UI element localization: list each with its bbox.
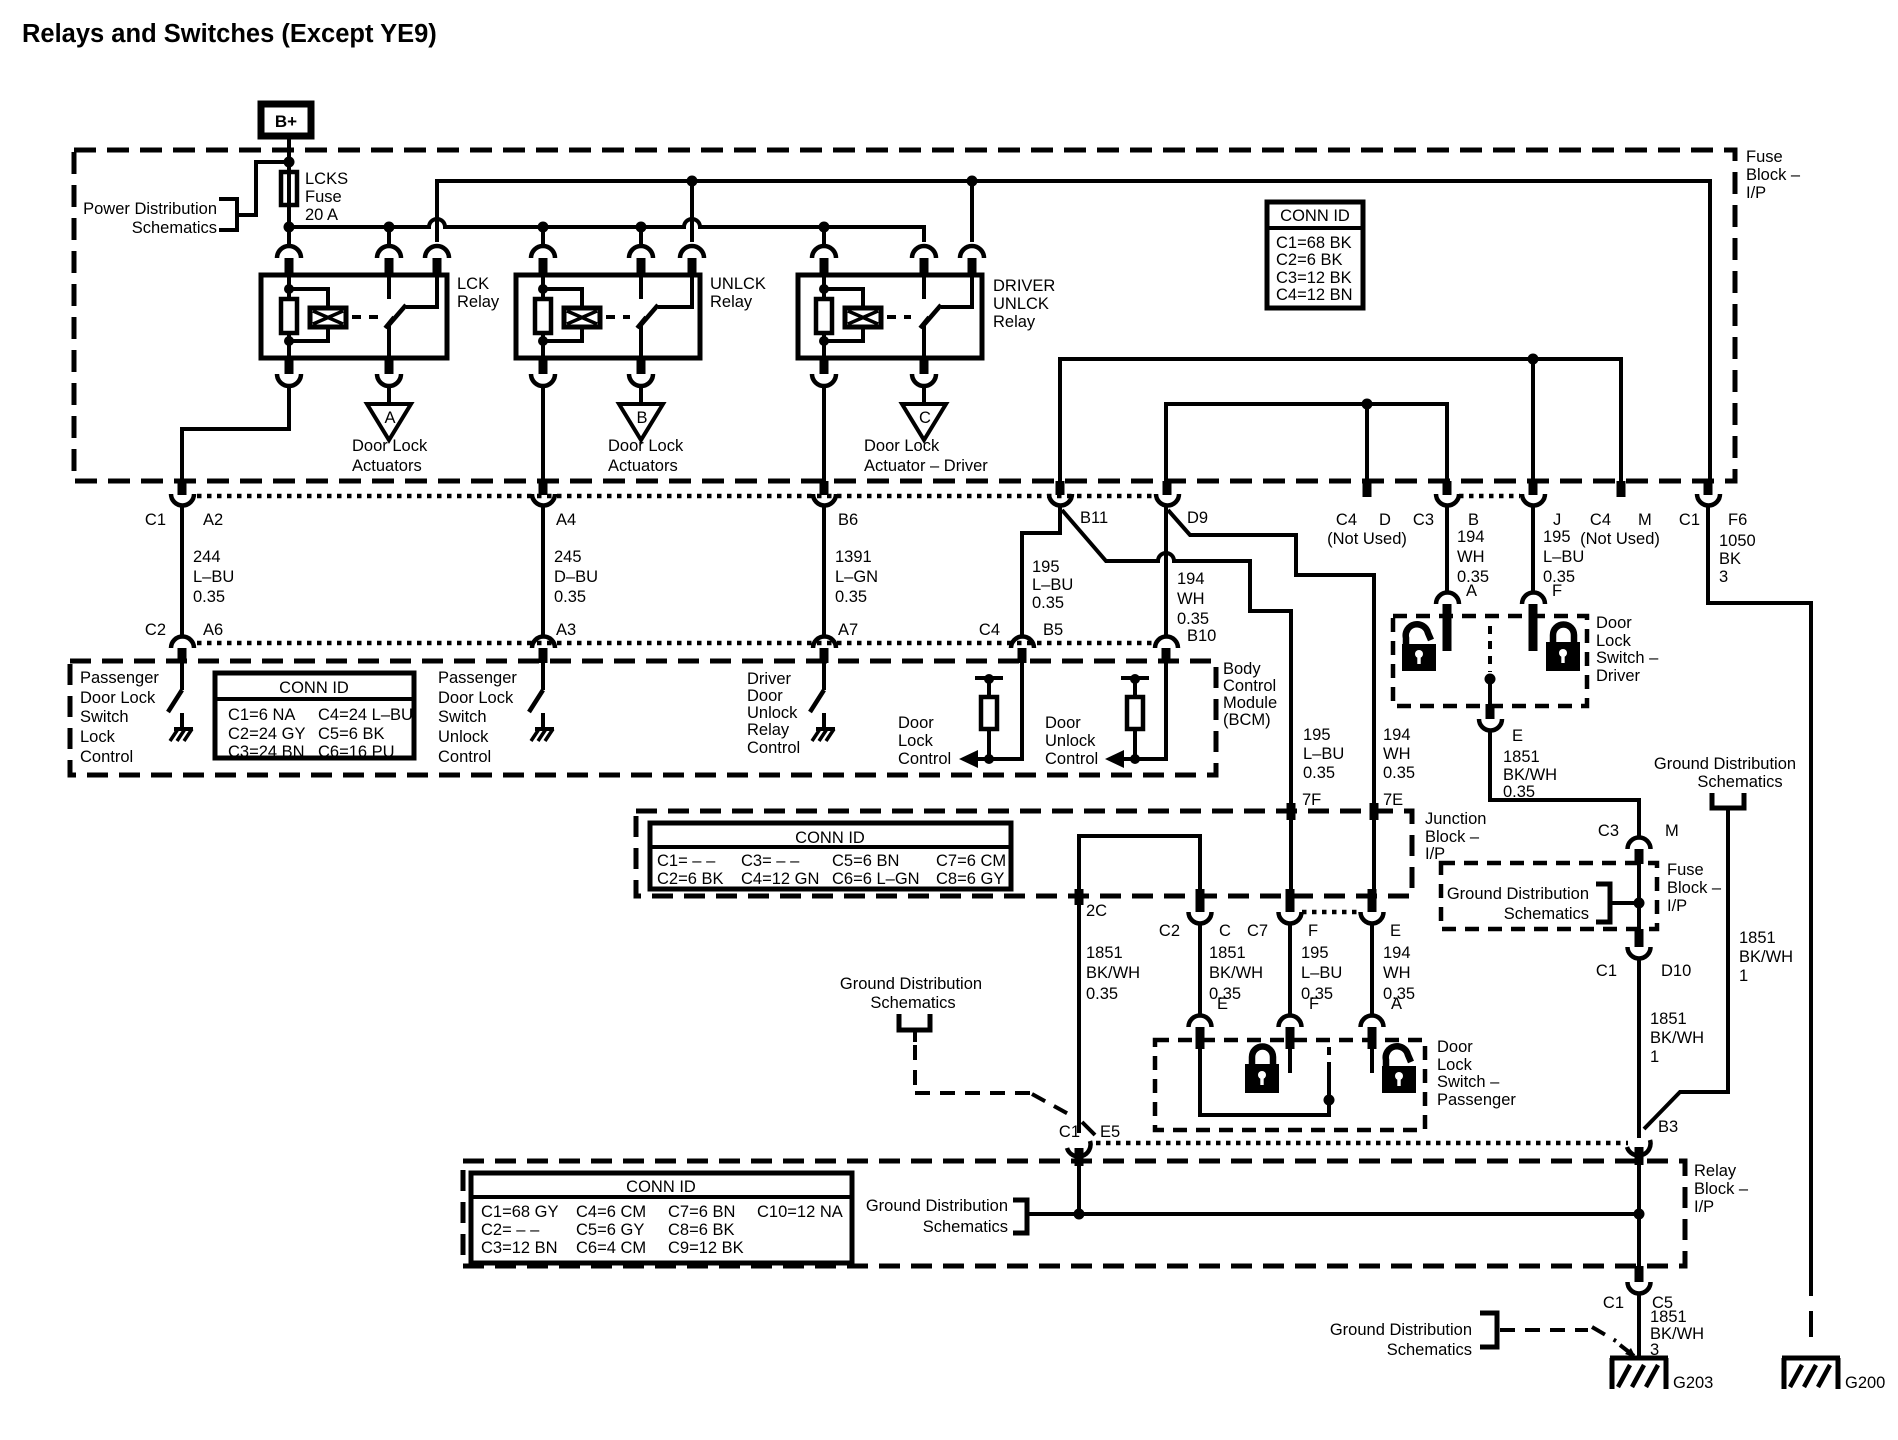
svg-text:Module: Module xyxy=(1223,694,1277,712)
connector C1/F6 xyxy=(1679,481,1747,529)
svg-text:1391: 1391 xyxy=(835,548,872,566)
svg-text:Control: Control xyxy=(898,750,951,768)
resistor BCM lock xyxy=(975,674,1003,759)
pin 2C xyxy=(1075,889,1108,920)
svg-text:244: 244 xyxy=(193,548,221,566)
svg-text:Unlock: Unlock xyxy=(438,728,489,746)
svg-text:D10: D10 xyxy=(1661,962,1691,980)
svg-text:A: A xyxy=(1391,995,1402,1013)
switch SW3 driver unlock relay control xyxy=(810,663,824,712)
svg-text:1851: 1851 xyxy=(1086,944,1123,962)
connector C1/C5 xyxy=(1603,1266,1673,1312)
svg-text:C5=6 GY: C5=6 GY xyxy=(576,1221,644,1239)
svg-text:F: F xyxy=(1552,582,1562,600)
svg-text:1050: 1050 xyxy=(1719,532,1756,550)
svg-text:C7=6 CM: C7=6 CM xyxy=(936,852,1006,870)
svg-text:Schematics: Schematics xyxy=(870,994,955,1012)
relay K3 coil winding branch xyxy=(824,289,881,341)
relay K1 mechanical link xyxy=(352,315,378,319)
svg-text:I/P: I/P xyxy=(1667,897,1687,915)
relay K1 pin 30 top connector xyxy=(377,227,401,275)
wire relay3 coil to B6 xyxy=(822,385,826,481)
connector C4/M not used xyxy=(1580,481,1660,548)
wire through fuse block mini xyxy=(1637,864,1641,929)
svg-text:Ground Distribution: Ground Distribution xyxy=(866,1197,1008,1215)
svg-text:F: F xyxy=(1309,995,1319,1013)
svg-text:L–BU: L–BU xyxy=(1303,745,1344,763)
svg-text:C1= – –: C1= – – xyxy=(657,852,716,870)
svg-text:Unlock: Unlock xyxy=(747,704,798,722)
connector E driver switch output xyxy=(1479,704,1523,745)
wire 244 L-BU xyxy=(182,505,234,637)
ground distribution callout top right xyxy=(1654,755,1796,808)
svg-text:BK/WH: BK/WH xyxy=(1503,766,1557,784)
connector D9 xyxy=(1156,481,1208,527)
svg-text:C4=12 BN: C4=12 BN xyxy=(1276,286,1353,304)
svg-text:I/P: I/P xyxy=(1746,184,1766,202)
connector C3/B xyxy=(1413,481,1479,529)
svg-text:1851: 1851 xyxy=(1650,1308,1687,1326)
driver switch mechanical link xyxy=(1485,626,1496,706)
relay K3 coil branch resistor xyxy=(816,275,832,358)
relay K1 output bottom connector xyxy=(377,358,401,386)
svg-text:L–BU: L–BU xyxy=(1543,548,1584,566)
wire 1851 BK/WH 3 to G203 xyxy=(1639,1293,1704,1359)
dotted segment F-E junction xyxy=(1302,910,1360,915)
pin 7E junction block xyxy=(1370,726,1416,820)
svg-text:A: A xyxy=(1466,582,1477,600)
wire F to passenger switch F xyxy=(1290,923,1342,1015)
svg-text:2C: 2C xyxy=(1086,902,1107,920)
padlock locked passenger xyxy=(1245,1047,1279,1094)
svg-text:C4: C4 xyxy=(979,621,1000,639)
svg-text:A: A xyxy=(384,409,395,427)
svg-text:Relays and Switches (Except YE: Relays and Switches (Except YE9) xyxy=(22,20,437,48)
conn id table relay block xyxy=(471,1173,852,1263)
junction block dashed box xyxy=(636,810,1486,896)
wire relay2 contact drop xyxy=(690,181,694,242)
svg-text:Relay: Relay xyxy=(710,293,753,311)
relay K1 coil branch resistor xyxy=(281,275,297,358)
svg-text:20 A: 20 A xyxy=(305,206,338,224)
svg-text:Passenger: Passenger xyxy=(80,669,159,687)
wire 195 L-BU to driver switch F xyxy=(1533,505,1584,600)
connector face dotted row 2 xyxy=(197,641,1152,646)
svg-text:3: 3 xyxy=(1719,568,1728,586)
bus B+ upper (y=181) xyxy=(437,181,1710,481)
connector F driver switch xyxy=(1522,593,1545,652)
relay K1 coil- bottom connector xyxy=(277,358,301,386)
svg-text:F6: F6 xyxy=(1728,511,1747,529)
svg-text:Relay: Relay xyxy=(993,313,1036,331)
connector C1/A2 xyxy=(145,481,223,529)
svg-text:C2=6 BK: C2=6 BK xyxy=(657,870,724,888)
svg-text:Driver: Driver xyxy=(747,670,792,688)
ground distribution callout in fuse block xyxy=(1447,884,1645,923)
wire relay2 coil to A4 xyxy=(541,385,545,481)
wire relay1 coil to A2 xyxy=(182,385,289,481)
svg-text:1851: 1851 xyxy=(1209,944,1246,962)
svg-text:M: M xyxy=(1638,511,1652,529)
svg-text:C2=6 BK: C2=6 BK xyxy=(1276,251,1343,269)
svg-text:(Not Used): (Not Used) xyxy=(1327,530,1407,548)
svg-text:Switch: Switch xyxy=(438,708,487,726)
svg-text:Lock: Lock xyxy=(80,728,116,746)
svg-text:B6: B6 xyxy=(838,511,858,529)
connector E junction block xyxy=(1361,889,1402,940)
bridge 2C to C2 inside junction block xyxy=(1079,836,1200,896)
svg-text:1851: 1851 xyxy=(1503,748,1540,766)
Power Distribution Schematics callout xyxy=(83,162,286,237)
svg-text:A6: A6 xyxy=(203,621,223,639)
fuse LCKS 20A xyxy=(281,162,348,227)
connector C4/D not used xyxy=(1327,481,1407,548)
svg-text:194: 194 xyxy=(1177,570,1205,588)
wire E5 through relay block xyxy=(1077,1164,1081,1214)
svg-text:C5=6 BN: C5=6 BN xyxy=(832,852,899,870)
svg-text:B10: B10 xyxy=(1187,627,1216,645)
svg-text:C8=6 BK: C8=6 BK xyxy=(668,1221,735,1239)
svg-text:7F: 7F xyxy=(1302,791,1321,809)
relay K1 pin 85 top connector xyxy=(277,227,301,275)
connector A driver switch xyxy=(1436,593,1459,652)
wire 194 WH to driver switch A xyxy=(1447,505,1489,600)
svg-text:Passenger: Passenger xyxy=(438,669,517,687)
svg-text:C3= – –: C3= – – xyxy=(741,852,800,870)
svg-text:C6=6 L–GN: C6=6 L–GN xyxy=(832,870,920,888)
svg-text:UNLCK: UNLCK xyxy=(710,275,766,293)
B+ terminal xyxy=(261,104,311,136)
svg-text:Ground Distribution: Ground Distribution xyxy=(1447,885,1589,903)
wire E to passenger switch A xyxy=(1372,923,1415,1015)
svg-text:Ground Distribution: Ground Distribution xyxy=(840,975,982,993)
svg-text:L–BU: L–BU xyxy=(1301,964,1342,982)
svg-text:CONN ID: CONN ID xyxy=(1280,207,1350,225)
svg-text:Block –: Block – xyxy=(1667,879,1722,897)
svg-text:Control: Control xyxy=(80,748,133,766)
ground G203 xyxy=(1610,1358,1713,1392)
relay K2 coil branch resistor xyxy=(535,275,551,358)
dotted line E5 to B3 xyxy=(1096,1141,1628,1146)
svg-text:C2= – –: C2= – – xyxy=(481,1221,540,1239)
connector B3 xyxy=(1627,1118,1678,1165)
svg-text:194: 194 xyxy=(1383,726,1411,744)
svg-text:Ground Distribution: Ground Distribution xyxy=(1654,755,1796,773)
svg-text:0.35: 0.35 xyxy=(835,588,867,606)
svg-text:0.35: 0.35 xyxy=(1086,985,1118,1003)
svg-text:WH: WH xyxy=(1383,964,1411,982)
relay K2 pin 87 top connector xyxy=(680,246,704,275)
driver unlock relay control label xyxy=(747,670,800,757)
net D9 to B10 (194 WH) xyxy=(1166,507,1209,636)
wire D10 to B3 (1851 BK/WH 1) xyxy=(1639,958,1704,1138)
svg-text:M: M xyxy=(1665,822,1679,840)
wire B3 through relay block xyxy=(1637,1163,1641,1266)
passenger switch internal wiring xyxy=(1200,1047,1335,1115)
svg-text:Actuator – Driver: Actuator – Driver xyxy=(864,457,988,475)
svg-text:C2: C2 xyxy=(145,621,166,639)
svg-text:A2: A2 xyxy=(203,511,223,529)
svg-text:Door: Door xyxy=(1045,714,1081,732)
door unlock control output xyxy=(1045,663,1166,768)
svg-text:Switch: Switch xyxy=(80,708,129,726)
connector A7 xyxy=(813,621,858,663)
relay block dashed box xyxy=(463,1161,1749,1266)
svg-text:C1=68 BK: C1=68 BK xyxy=(1276,234,1352,252)
svg-text:BK/WH: BK/WH xyxy=(1739,948,1793,966)
ground at SW1 xyxy=(170,713,193,741)
svg-text:C8=6 GY: C8=6 GY xyxy=(936,870,1004,888)
svg-text:Fuse: Fuse xyxy=(1746,148,1783,166)
svg-text:195: 195 xyxy=(1303,726,1331,744)
wire 7F to F pin xyxy=(1289,820,1293,896)
connector A4 xyxy=(532,481,576,529)
svg-text:Door Lock: Door Lock xyxy=(352,437,428,455)
svg-text:C1: C1 xyxy=(1596,962,1617,980)
wire 245 D-BU xyxy=(543,505,598,637)
svg-text:Schematics: Schematics xyxy=(1504,905,1589,923)
svg-text:Block –: Block – xyxy=(1425,828,1480,846)
relay K2 pin 30 top connector xyxy=(629,227,653,275)
ground distribution callout left xyxy=(840,975,1095,1135)
svg-text:G203: G203 xyxy=(1673,1374,1713,1392)
svg-text:Door Lock: Door Lock xyxy=(864,437,940,455)
svg-text:245: 245 xyxy=(554,548,582,566)
relay K2 mechanical link xyxy=(606,315,630,319)
svg-text:1851: 1851 xyxy=(1739,929,1776,947)
svg-text:Fuse: Fuse xyxy=(1667,861,1704,879)
svg-text:G200: G200 xyxy=(1845,1374,1885,1392)
svg-text:194: 194 xyxy=(1383,944,1411,962)
pin 7F junction block xyxy=(1287,726,1345,820)
wire 1851 2C to E5 xyxy=(1079,905,1140,1133)
svg-text:Control: Control xyxy=(1223,677,1276,695)
relay K1 switch xyxy=(385,275,437,358)
node bus181 relay2 contact xyxy=(687,176,698,187)
svg-text:Door: Door xyxy=(1596,614,1632,632)
svg-text:C1: C1 xyxy=(1603,1294,1624,1312)
svg-text:C3: C3 xyxy=(1413,511,1434,529)
svg-text:C7: C7 xyxy=(1247,922,1268,940)
svg-text:Block –: Block – xyxy=(1694,1180,1749,1198)
relay K2 coil- bottom connector xyxy=(531,358,555,386)
svg-text:Body: Body xyxy=(1223,660,1261,678)
svg-text:DRIVER: DRIVER xyxy=(993,277,1055,295)
title xyxy=(22,20,437,48)
door lock control output xyxy=(898,663,1022,768)
svg-text:Control: Control xyxy=(747,739,800,757)
svg-text:C7=6 BN: C7=6 BN xyxy=(668,1203,735,1221)
connector C2 junction block xyxy=(1159,889,1212,940)
svg-text:L–BU: L–BU xyxy=(193,568,234,586)
svg-text:I/P: I/P xyxy=(1425,845,1445,863)
svg-text:194: 194 xyxy=(1457,528,1485,546)
svg-text:C3=12 BN: C3=12 BN xyxy=(481,1239,558,1257)
svg-text:B5: B5 xyxy=(1043,621,1063,639)
svg-text:(BCM): (BCM) xyxy=(1223,711,1271,729)
switches and BCM dashed box xyxy=(70,660,1277,775)
connector C1/E5 xyxy=(1059,1123,1120,1166)
svg-text:L–GN: L–GN xyxy=(835,568,878,586)
svg-text:0.35: 0.35 xyxy=(554,588,586,606)
svg-text:C4: C4 xyxy=(1336,511,1357,529)
svg-text:WH: WH xyxy=(1457,548,1485,566)
svg-text:C1: C1 xyxy=(1679,511,1700,529)
net 195 L-BU fuse block (line A) xyxy=(1060,354,1621,482)
svg-text:Lock: Lock xyxy=(1437,1056,1473,1074)
connector face dotted row 1 xyxy=(197,494,1520,499)
svg-text:Door Lock: Door Lock xyxy=(608,437,684,455)
node fuse output xyxy=(284,222,295,233)
svg-text:Power Distribution: Power Distribution xyxy=(83,200,217,218)
svg-text:J: J xyxy=(1553,511,1561,529)
svg-text:CONN ID: CONN ID xyxy=(795,829,865,847)
node bus227 relay2 coil xyxy=(538,222,549,233)
wire 7E to E pin xyxy=(1372,820,1376,896)
connector C4/B5 xyxy=(979,621,1063,663)
node bus227 relay3 coil xyxy=(819,222,830,233)
connector J xyxy=(1522,481,1561,529)
svg-text:BK: BK xyxy=(1719,550,1741,568)
svg-text:C9=12 BK: C9=12 BK xyxy=(668,1239,744,1257)
relay K1 LCK Relay box xyxy=(261,275,500,358)
relay K3 mechanical link xyxy=(887,315,911,319)
svg-text:Control: Control xyxy=(438,748,491,766)
passenger unlock switch label xyxy=(438,669,517,766)
svg-text:Actuators: Actuators xyxy=(608,457,678,475)
connector A3 xyxy=(532,621,576,663)
svg-text:Block –: Block – xyxy=(1746,166,1801,184)
svg-text:Schematics: Schematics xyxy=(1387,1341,1472,1359)
relay K3 pin 30 top connector xyxy=(912,246,936,275)
svg-text:C4: C4 xyxy=(1590,511,1611,529)
svg-text:E5: E5 xyxy=(1100,1123,1120,1141)
svg-text:1851: 1851 xyxy=(1650,1010,1687,1028)
svg-text:C3: C3 xyxy=(1598,822,1619,840)
svg-text:7E: 7E xyxy=(1383,791,1403,809)
relay K2 output bottom connector xyxy=(629,358,653,386)
svg-text:Schematics: Schematics xyxy=(1697,773,1782,791)
wire 1851 BK/WH 1 to B3 xyxy=(1644,808,1793,1129)
svg-text:Lock: Lock xyxy=(898,732,934,750)
net B11 to 7F staircase xyxy=(1062,510,1291,803)
padlock unlocked driver xyxy=(1402,624,1436,671)
relay K2 coil winding branch xyxy=(543,289,600,341)
svg-text:B3: B3 xyxy=(1658,1118,1678,1136)
svg-text:B+: B+ xyxy=(275,112,297,131)
svg-text:Lock: Lock xyxy=(1596,632,1632,650)
relay K2 switch xyxy=(637,275,692,358)
svg-text:Switch –: Switch – xyxy=(1437,1073,1500,1091)
wire relay3 contact drop xyxy=(970,181,974,242)
svg-text:B: B xyxy=(636,409,647,427)
svg-text:Fuse: Fuse xyxy=(305,188,342,206)
svg-text:C2: C2 xyxy=(1159,922,1180,940)
svg-text:B: B xyxy=(1468,511,1479,529)
connector B6 xyxy=(813,481,858,529)
connector C/C7/F junction block xyxy=(1219,889,1318,940)
door lock switch passenger dashed box xyxy=(1155,1038,1516,1130)
conn id table passenger switch xyxy=(215,673,414,761)
net 194 WH fuse block (line B) xyxy=(1166,399,1447,482)
connector B11 xyxy=(1049,481,1108,527)
svg-text:Ground Distribution: Ground Distribution xyxy=(1330,1321,1472,1339)
svg-text:1: 1 xyxy=(1650,1048,1659,1066)
svg-text:0.35: 0.35 xyxy=(1383,764,1415,782)
svg-text:Control: Control xyxy=(1045,750,1098,768)
svg-text:D: D xyxy=(1379,511,1391,529)
svg-text:F: F xyxy=(1308,922,1318,940)
svg-text:Schematics: Schematics xyxy=(132,219,217,237)
svg-text:Door: Door xyxy=(898,714,934,732)
svg-text:UNLCK: UNLCK xyxy=(993,295,1049,313)
svg-text:C: C xyxy=(919,409,931,427)
svg-text:C5=6 BK: C5=6 BK xyxy=(318,725,385,743)
svg-text:LCKS: LCKS xyxy=(305,170,348,188)
connector C2/A6 xyxy=(145,621,223,663)
padlock locked driver xyxy=(1546,625,1580,672)
svg-text:Actuators: Actuators xyxy=(352,457,422,475)
svg-text:195: 195 xyxy=(1543,528,1571,546)
passenger lock switch label xyxy=(80,669,159,766)
svg-text:C: C xyxy=(1219,922,1231,940)
svg-text:C1=68 GY: C1=68 GY xyxy=(481,1203,559,1221)
node at B+ wire xyxy=(284,157,295,168)
svg-text:0.35: 0.35 xyxy=(193,588,225,606)
relay K3 pin 87 top connector xyxy=(960,246,984,275)
switch SW1 lock control xyxy=(168,663,182,712)
svg-text:0.35: 0.35 xyxy=(1303,764,1335,782)
padlock unlocked passenger xyxy=(1382,1046,1416,1093)
wire F6 1050 BK to G200 xyxy=(1708,505,1811,1340)
svg-text:C6=4 CM: C6=4 CM xyxy=(576,1239,646,1257)
relay K3 pin 85 top connector xyxy=(812,227,836,275)
svg-text:A4: A4 xyxy=(556,511,576,529)
svg-text:LCK: LCK xyxy=(457,275,489,293)
wire B+ to fuse xyxy=(287,139,291,172)
net D9 to 7E staircase xyxy=(1168,510,1374,803)
svg-text:C1=6 NA: C1=6 NA xyxy=(228,706,295,724)
svg-text:0.35: 0.35 xyxy=(1032,594,1064,612)
fuse block I/P dashed box xyxy=(74,148,1801,481)
connector E passenger switch xyxy=(1189,1016,1212,1049)
svg-text:C10=12 NA: C10=12 NA xyxy=(757,1203,843,1221)
relay K2 UNLCK Relay box xyxy=(516,275,766,358)
fuse block mini dashed box xyxy=(1441,861,1722,929)
bus B+ lower (y=227) with hops xyxy=(289,219,924,242)
relay K1 coil winding branch xyxy=(289,289,346,341)
relay K2 pin 85 top connector xyxy=(531,227,555,275)
ground distribution callout bottom xyxy=(1330,1313,1636,1359)
net B11 to B5 (195 L-BU) xyxy=(1022,507,1073,636)
svg-text:C6=16 PU: C6=16 PU xyxy=(318,743,395,761)
svg-text:C3=12 BK: C3=12 BK xyxy=(1276,269,1352,287)
ground G200 xyxy=(1782,1358,1885,1392)
svg-text:195: 195 xyxy=(1301,944,1329,962)
node bus181 relay3 contact xyxy=(967,176,978,187)
svg-text:Relay: Relay xyxy=(747,721,790,739)
triangle actuator B xyxy=(608,385,684,475)
door lock switch driver dashed box xyxy=(1393,614,1659,706)
svg-text:BK/WH: BK/WH xyxy=(1650,1029,1704,1047)
svg-text:C1: C1 xyxy=(1059,1123,1080,1141)
svg-text:CONN ID: CONN ID xyxy=(626,1178,696,1196)
ground at SW2 xyxy=(531,713,554,741)
connector F passenger switch xyxy=(1279,1016,1302,1073)
svg-text:Driver: Driver xyxy=(1596,667,1641,685)
svg-text:Relay: Relay xyxy=(457,293,500,311)
svg-text:C4=6 CM: C4=6 CM xyxy=(576,1203,646,1221)
